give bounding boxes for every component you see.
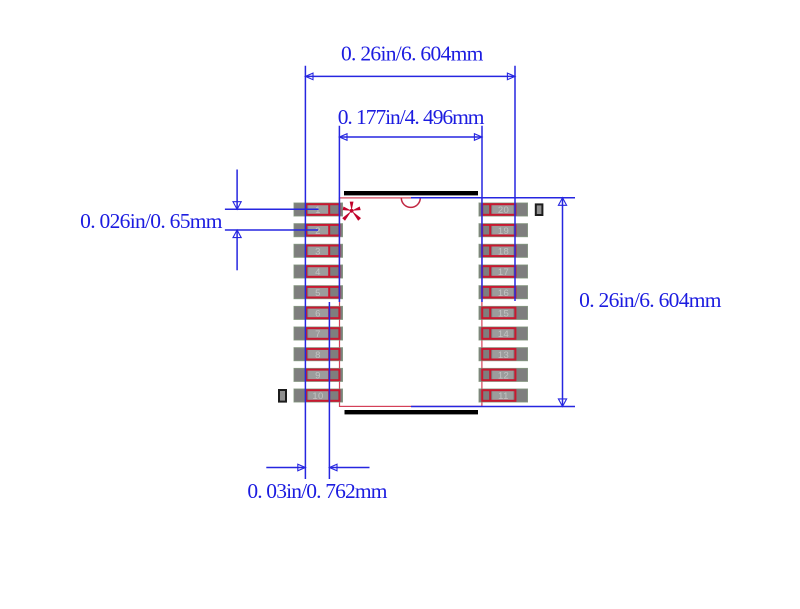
svg-text:19: 19	[498, 226, 509, 237]
svg-text:0. 26in/6. 604mm: 0. 26in/6. 604mm	[579, 288, 722, 312]
svg-text:8: 8	[315, 350, 321, 361]
svg-text:15: 15	[498, 309, 509, 320]
svg-text:14: 14	[498, 329, 509, 340]
svg-text:13: 13	[498, 350, 509, 361]
svg-text:16: 16	[498, 288, 509, 299]
svg-text:0. 177in/4. 496mm: 0. 177in/4. 496mm	[338, 105, 485, 129]
svg-text:6: 6	[315, 309, 321, 320]
svg-text:9: 9	[315, 371, 321, 382]
svg-text:7: 7	[315, 329, 321, 340]
svg-text:0. 26in/6. 604mm: 0. 26in/6. 604mm	[341, 41, 484, 65]
svg-text:5: 5	[315, 288, 321, 299]
svg-text:12: 12	[498, 371, 509, 382]
svg-text:17: 17	[498, 267, 509, 278]
svg-text:18: 18	[498, 246, 509, 257]
svg-text:1: 1	[315, 205, 321, 216]
svg-text:3: 3	[315, 246, 321, 257]
svg-text:4: 4	[315, 267, 321, 278]
svg-text:2: 2	[315, 226, 321, 237]
svg-text:11: 11	[498, 391, 509, 402]
svg-text:0. 03in/0. 762mm: 0. 03in/0. 762mm	[247, 479, 387, 503]
svg-text:0. 026in/0. 65mm: 0. 026in/0. 65mm	[80, 209, 223, 233]
svg-text:10: 10	[312, 391, 323, 402]
svg-text:20: 20	[498, 205, 509, 216]
